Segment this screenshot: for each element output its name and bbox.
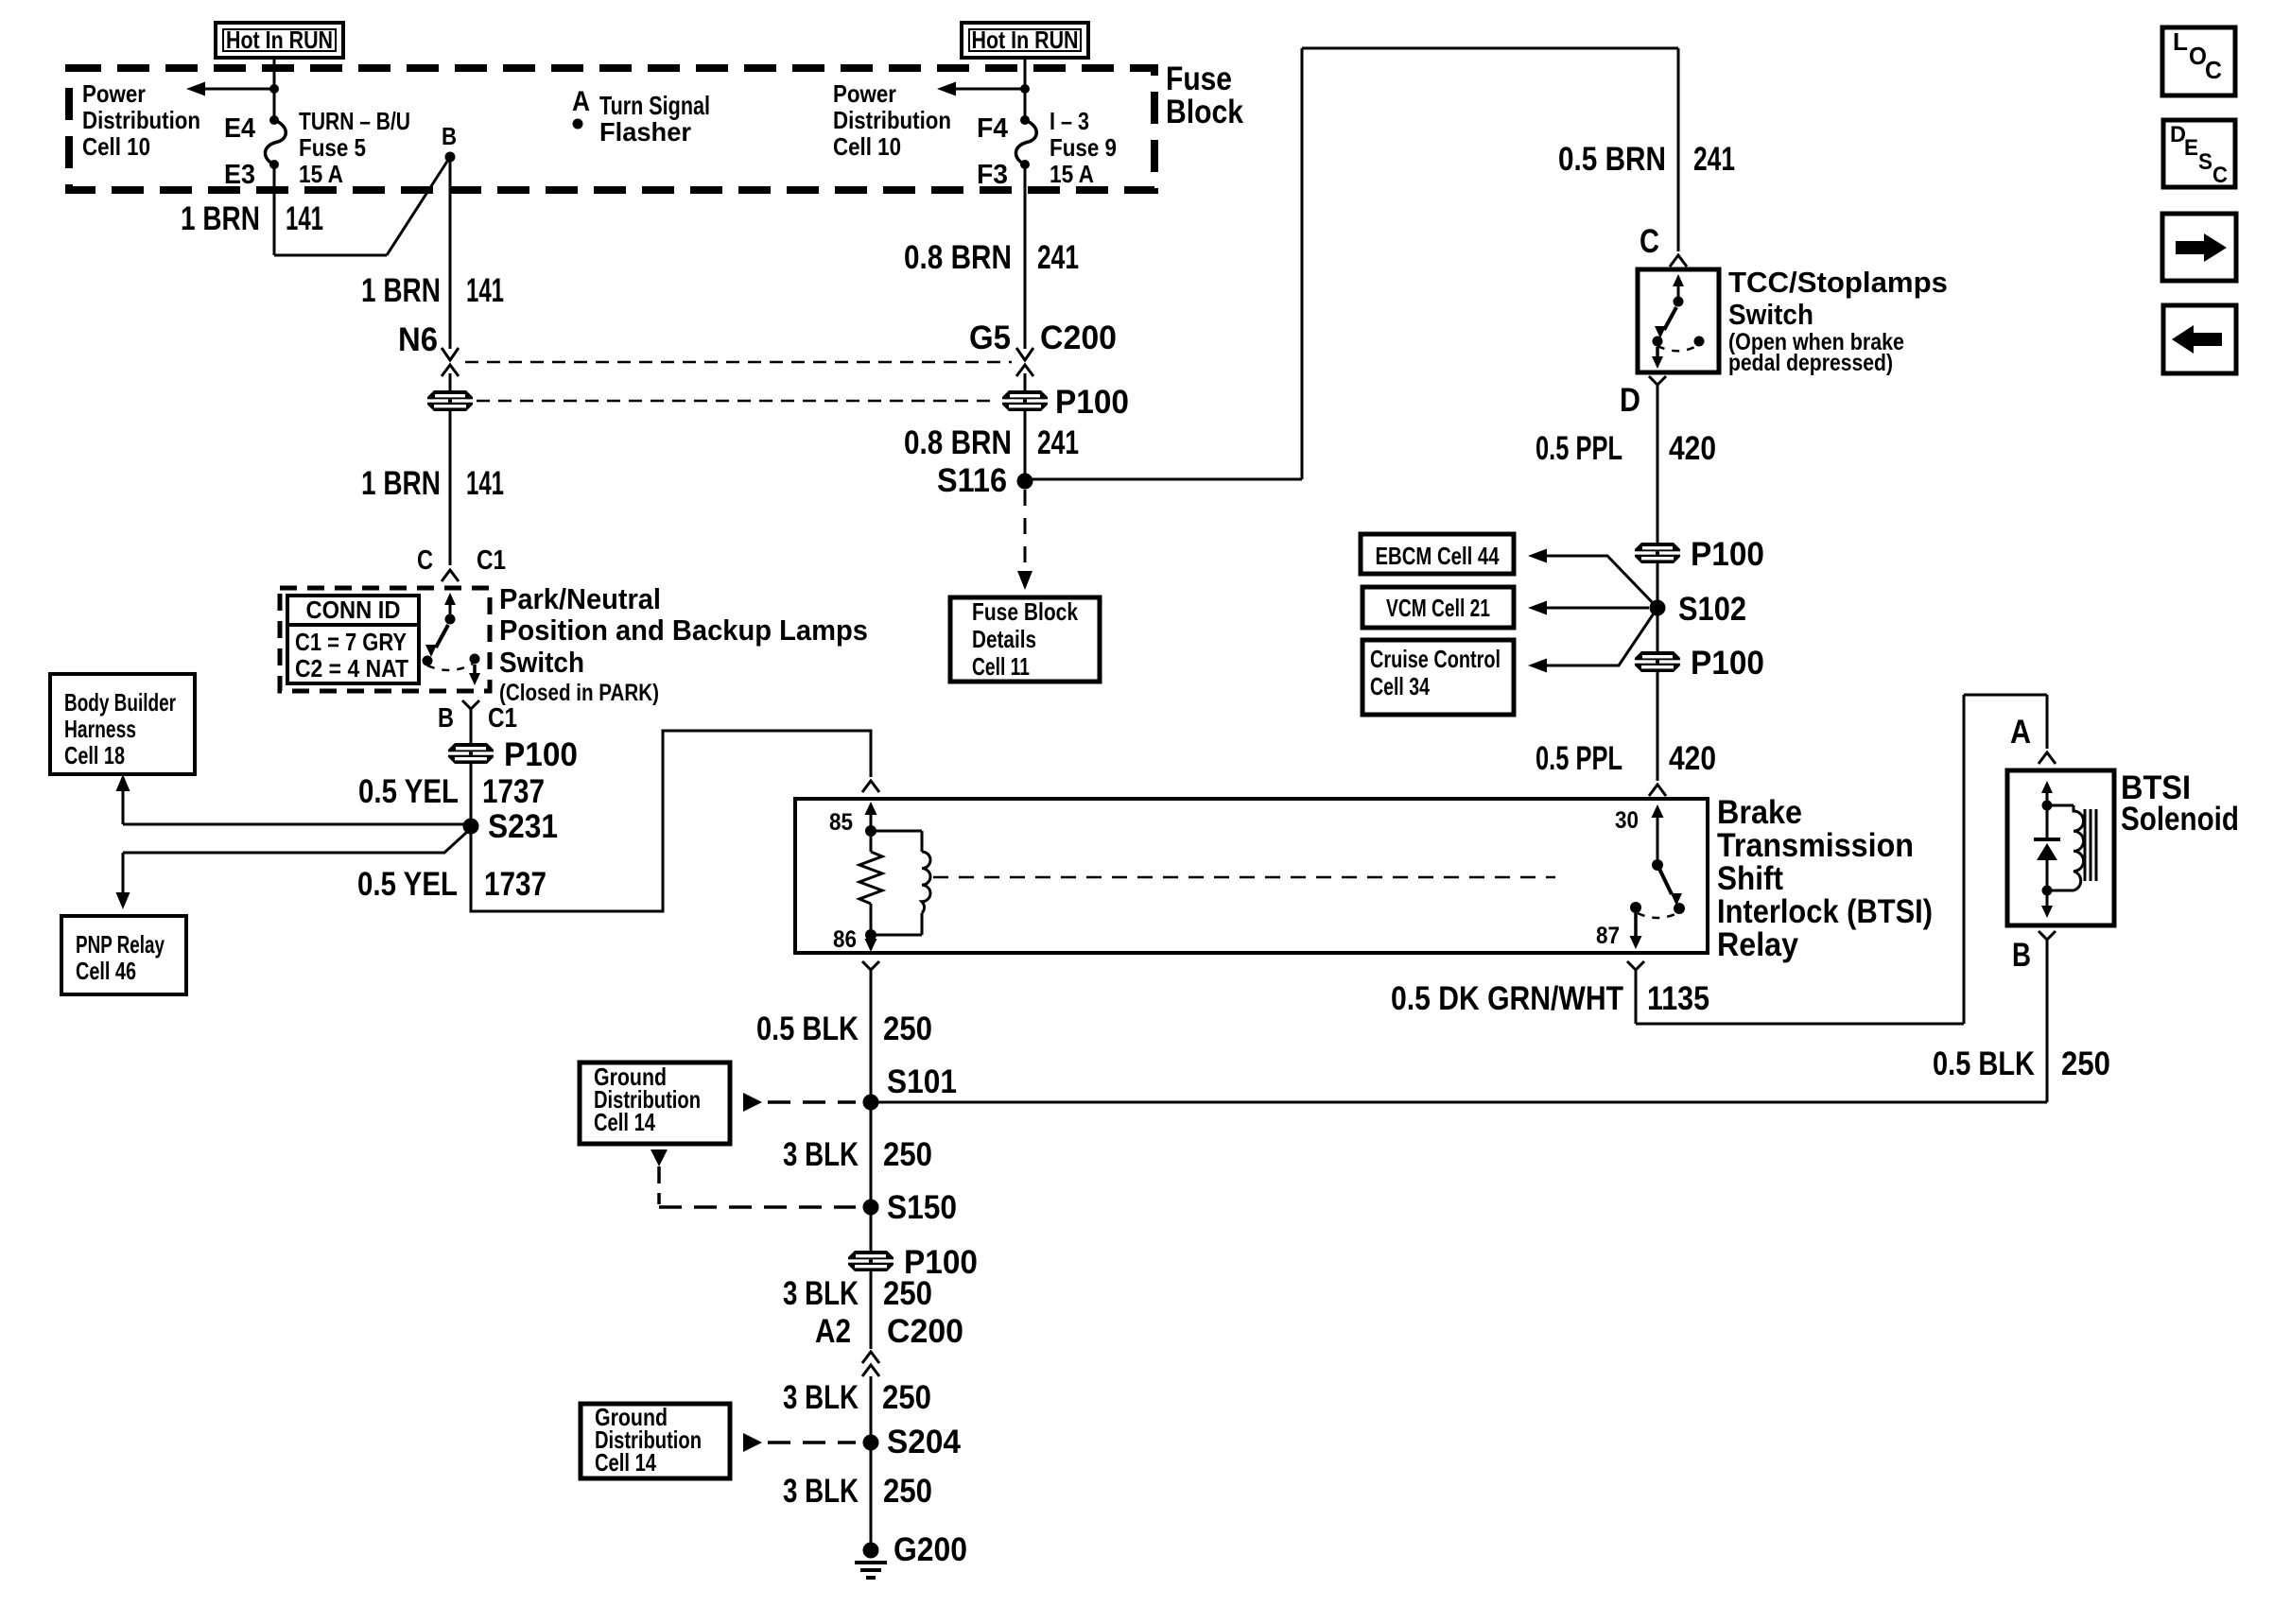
svg-text:Fuse: Fuse: [1166, 60, 1232, 97]
dashed ground reference to S150: [659, 1205, 856, 1209]
connector B / C1 out of P/N switch: [462, 700, 479, 709]
svg-text:0.5 BLK: 0.5 BLK: [1933, 1045, 2035, 1082]
connector below relay pin 87: [1627, 961, 1644, 970]
svg-text:250: 250: [883, 1275, 932, 1312]
svg-text:Brake: Brake: [1717, 794, 1802, 831]
svg-text:C: C: [2212, 163, 2228, 188]
svg-text:15 A: 15 A: [299, 160, 343, 188]
dashed ground reference to S101: [743, 1093, 762, 1112]
svg-text:0.5 YEL: 0.5 YEL: [358, 773, 459, 810]
splice S204: [863, 1435, 879, 1451]
relay switch arm to pin 87: [1657, 865, 1672, 894]
Hot In RUN box (left): [216, 23, 343, 58]
svg-text:Body Builder: Body Builder: [64, 688, 176, 717]
svg-text:pedal depressed): pedal depressed): [1728, 350, 1893, 376]
wire S102 to grommet: [1657, 608, 1659, 651]
wire grommet to S116: [1024, 411, 1027, 475]
svg-text:A: A: [572, 86, 590, 117]
svg-text:EBCM Cell 44: EBCM Cell 44: [1376, 542, 1500, 570]
wire to grommet P100: [470, 719, 473, 743]
svg-text:PNP Relay: PNP Relay: [76, 930, 165, 959]
svg-text:Position and Backup Lamps: Position and Backup Lamps: [499, 613, 868, 647]
wire grommet down to relay pin 30: [1657, 672, 1659, 781]
svg-text:P100: P100: [1691, 645, 1764, 682]
svg-text:0.5 YEL: 0.5 YEL: [357, 866, 458, 903]
grommet P100 (below P/N switch): [448, 743, 494, 764]
right arrow nav box: [2162, 214, 2236, 281]
svg-text:TURN – B/U: TURN – B/U: [299, 107, 410, 135]
svg-text:250: 250: [882, 1379, 931, 1416]
svg-text:Distribution: Distribution: [82, 106, 200, 134]
TCC/Stoplamps Switch box: [1638, 269, 1719, 372]
svg-text:Fuse Block: Fuse Block: [972, 597, 1078, 626]
svg-text:S204: S204: [887, 1424, 962, 1460]
relay internal dashed link: [933, 876, 1555, 879]
svg-text:G200: G200: [894, 1531, 967, 1568]
svg-text:N6: N6: [398, 321, 438, 358]
svg-text:S150: S150: [887, 1189, 957, 1226]
left arrow nav box: [2163, 305, 2236, 373]
svg-text:Switch: Switch: [499, 646, 584, 679]
svg-text:250: 250: [883, 1011, 932, 1047]
connector B of BTSI solenoid: [2039, 931, 2056, 940]
svg-text:Details: Details: [972, 625, 1036, 653]
svg-text:Cruise Control: Cruise Control: [1370, 645, 1501, 673]
svg-text:86: 86: [833, 926, 857, 953]
svg-text:15 A: 15 A: [1050, 160, 1094, 188]
wire solenoid B to ground bus: [2046, 950, 2049, 1102]
svg-text:(Closed in PARK): (Closed in PARK): [499, 680, 659, 706]
svg-text:C2 = 4 NAT: C2 = 4 NAT: [295, 654, 408, 682]
wire grommet to connector A2: [870, 1271, 873, 1349]
wire N6 to grommet: [449, 373, 452, 390]
svg-text:Power: Power: [82, 79, 146, 108]
svg-text:85: 85: [829, 809, 853, 836]
arrow to EBCM Cell 44: [1547, 556, 1657, 608]
svg-text:1 BRN: 1 BRN: [361, 465, 441, 502]
splice S101: [863, 1095, 879, 1111]
Ground Distribution Cell 14 box (upper): [580, 1063, 730, 1144]
solenoid clamp diode: [2046, 805, 2049, 838]
arrow to Power Distribution Cell 10 (left): [202, 88, 274, 91]
svg-text:Switch: Switch: [1728, 298, 1813, 331]
Cruise Control Cell 34 box: [1362, 640, 1514, 715]
relay pin 87 contact: [1630, 902, 1641, 913]
VCM Cell 21 box: [1362, 587, 1514, 628]
wire 0.5 DK GRN/WHT to solenoid: [1635, 980, 1638, 1024]
wire S231 down and over to relay pin 85: [471, 731, 871, 911]
dashed ground reference to S204: [743, 1433, 762, 1452]
svg-text:Cell 14: Cell 14: [594, 1108, 655, 1136]
wire E3 down and jog to B: [273, 164, 276, 255]
svg-text:S116: S116: [937, 462, 1007, 499]
svg-text:Distribution: Distribution: [833, 106, 951, 134]
svg-text:F4: F4: [977, 113, 1008, 144]
svg-text:E3: E3: [224, 160, 255, 190]
svg-text:B: B: [438, 703, 454, 734]
svg-text:TCC/Stoplamps: TCC/Stoplamps: [1728, 266, 1948, 299]
svg-text:C1: C1: [488, 703, 517, 734]
ground bus wire from S101 to solenoid: [871, 1101, 2047, 1104]
P/N switch arm: [449, 599, 452, 615]
svg-text:C: C: [2205, 56, 2222, 84]
wire down to TCC switch pin C: [1677, 48, 1680, 251]
wire S101 to S150: [870, 1102, 873, 1207]
svg-text:Relay: Relay: [1717, 926, 1798, 963]
svg-text:Park/Neutral: Park/Neutral: [499, 582, 661, 615]
svg-text:420: 420: [1669, 430, 1716, 467]
solenoid coil: [2047, 804, 2073, 807]
solenoid internal feed arrow: [2046, 786, 2049, 803]
ground reference branch arrow (down): [651, 1149, 668, 1166]
svg-text:F3: F3: [977, 160, 1008, 190]
grommet P100 (right upper): [1635, 543, 1680, 563]
fuse block dashed enclosure: [69, 68, 1154, 190]
svg-text:I – 3: I – 3: [1050, 107, 1089, 135]
svg-text:L: L: [2173, 27, 2188, 56]
solenoid core lines: [2084, 809, 2087, 881]
svg-text:Interlock (BTSI): Interlock (BTSI): [1717, 893, 1933, 930]
wire S231 to PNP Relay arrow: [123, 832, 467, 853]
wire relay 86 down to S101: [870, 980, 873, 1102]
svg-text:0.8 BRN: 0.8 BRN: [904, 239, 1012, 276]
svg-text:A2: A2: [815, 1313, 851, 1350]
solenoid output arrow: [2046, 895, 2049, 909]
svg-text:S102: S102: [1678, 591, 1746, 628]
wire B down to connector N6: [449, 157, 452, 349]
splice S150: [863, 1200, 879, 1216]
wire S116 to right riser: [1025, 478, 1302, 481]
top horizontal wire to TCC switch: [1302, 47, 1678, 50]
svg-text:1 BRN: 1 BRN: [181, 200, 260, 237]
Ground Distribution Cell 14 box (lower): [581, 1404, 730, 1478]
svg-text:Flasher: Flasher: [599, 117, 691, 147]
connector into relay pin 30: [1649, 785, 1666, 796]
svg-text:0.5 PPL: 0.5 PPL: [1536, 740, 1622, 777]
svg-text:Power: Power: [833, 79, 896, 108]
fuse I-3 Fuse 9 15 A: [1024, 89, 1027, 120]
BTSI relay box: [795, 799, 1708, 953]
wire grommet to connector C C1: [449, 411, 452, 565]
Park/Neutral Position and Backup Lamps Switch dashed box: [280, 588, 490, 691]
svg-text:C200: C200: [1040, 320, 1117, 356]
right riser wire up to top: [1301, 48, 1304, 479]
TCC switch arm: [1677, 279, 1680, 298]
PNP Relay Cell 46 box: [61, 916, 186, 994]
CONN ID table: [287, 596, 419, 683]
svg-text:30: 30: [1615, 807, 1639, 834]
svg-text:P100: P100: [1691, 536, 1764, 573]
relay coil junction top: [865, 825, 876, 837]
svg-text:0.5 PPL: 0.5 PPL: [1536, 430, 1622, 467]
arrow to Power Distribution Cell 10 (right): [953, 88, 1025, 91]
svg-text:D: D: [1620, 382, 1640, 419]
wire from Hot In RUN to fuse 5: [273, 58, 276, 89]
svg-text:87: 87: [1596, 923, 1620, 949]
svg-text:1 BRN: 1 BRN: [361, 272, 441, 309]
svg-text:250: 250: [883, 1473, 932, 1510]
P100 grommet dashed plane: [477, 400, 998, 403]
node at fuse 5 feed: [269, 84, 279, 94]
Hot In RUN box (right): [962, 23, 1088, 58]
svg-text:241: 241: [1693, 141, 1735, 178]
wire connector to S204: [870, 1376, 873, 1443]
svg-text:E4: E4: [224, 113, 255, 144]
svg-text:C1 = 7 GRY: C1 = 7 GRY: [295, 628, 407, 656]
ground G200: [863, 1543, 879, 1559]
svg-text:C: C: [1640, 223, 1659, 260]
svg-text:141: 141: [466, 272, 504, 309]
svg-text:Cell 18: Cell 18: [64, 741, 125, 769]
svg-text:C: C: [417, 545, 433, 576]
svg-text:3 BLK: 3 BLK: [783, 1136, 859, 1173]
svg-text:Turn Signal: Turn Signal: [599, 91, 710, 120]
svg-text:Cell 10: Cell 10: [833, 132, 901, 161]
svg-text:Shift: Shift: [1717, 860, 1783, 897]
svg-text:Solenoid: Solenoid: [2121, 801, 2239, 838]
wire grommet to S102: [1657, 563, 1659, 608]
svg-text:Cell 14: Cell 14: [595, 1448, 656, 1477]
svg-text:Harness: Harness: [64, 715, 136, 743]
svg-text:250: 250: [2061, 1045, 2110, 1082]
svg-text:S: S: [2198, 149, 2212, 175]
DESC nav box: [2163, 120, 2235, 187]
fuse TURN-B/U Fuse 5 15 A: [273, 89, 276, 120]
svg-text:Fuse 9: Fuse 9: [1050, 133, 1117, 162]
svg-text:Block: Block: [1166, 94, 1243, 130]
node at fuse 9 feed: [1020, 84, 1030, 94]
connector below relay pin 86: [862, 961, 879, 970]
svg-text:P100: P100: [504, 736, 578, 773]
svg-text:Transmission: Transmission: [1717, 827, 1914, 864]
svg-text:VCM Cell 21: VCM Cell 21: [1386, 594, 1490, 622]
svg-text:Hot In RUN: Hot In RUN: [226, 26, 333, 54]
svg-text:0.5 BRN: 0.5 BRN: [1558, 141, 1666, 178]
svg-text:0.5 BLK: 0.5 BLK: [756, 1011, 859, 1047]
svg-text:C1: C1: [477, 545, 506, 576]
relay coil branch: [871, 830, 922, 833]
Body Builder Harness Cell 18 box: [50, 674, 195, 774]
svg-text:E: E: [2184, 135, 2198, 161]
wire grommet to S231: [470, 764, 473, 826]
svg-text:A: A: [2010, 714, 2031, 751]
Fuse Block Details Cell 11 box: [950, 597, 1100, 682]
wire from Hot In RUN to fuse 9: [1024, 58, 1027, 89]
svg-text:Cell 46: Cell 46: [76, 957, 136, 985]
splice S102: [1650, 600, 1666, 616]
BTSI solenoid box: [2007, 770, 2114, 925]
svg-text:B: B: [442, 122, 457, 150]
svg-text:3 BLK: 3 BLK: [783, 1473, 859, 1510]
svg-text:250: 250: [883, 1136, 932, 1173]
dashed arrow S116 to Fuse Block Details: [1024, 490, 1027, 575]
grommet P100 (bottom): [848, 1251, 894, 1271]
svg-text:1135: 1135: [1647, 980, 1709, 1017]
svg-text:420: 420: [1669, 740, 1716, 777]
svg-text:1737: 1737: [484, 866, 547, 903]
wire S150 to grommet: [870, 1207, 873, 1251]
svg-text:1737: 1737: [482, 773, 545, 810]
grommet P100 (middle): [1002, 390, 1048, 411]
wire fuse 9 down to connector G5: [1024, 164, 1027, 349]
svg-text:S101: S101: [887, 1063, 957, 1100]
svg-text:G5: G5: [969, 320, 1011, 356]
connector into relay pin 85: [862, 781, 879, 792]
splice S231: [463, 819, 479, 835]
svg-text:B: B: [2012, 937, 2031, 974]
wire S204 to G200: [870, 1443, 873, 1543]
svg-text:141: 141: [466, 465, 504, 502]
relay switch common dot: [1652, 859, 1663, 871]
svg-text:241: 241: [1037, 424, 1079, 461]
relay coil junction bottom: [865, 929, 876, 941]
relay resistor: [870, 836, 873, 852]
svg-text:Cell 11: Cell 11: [972, 652, 1030, 681]
svg-text:Hot In RUN: Hot In RUN: [972, 26, 1079, 54]
svg-text:Cell 10: Cell 10: [82, 132, 150, 161]
wire S231 to Body Builder Harness arrow: [123, 823, 471, 826]
svg-text:Fuse 5: Fuse 5: [299, 133, 366, 162]
EBCM Cell 44 box: [1361, 534, 1514, 574]
splice S116: [1017, 474, 1033, 490]
LOC nav box: [2162, 27, 2235, 95]
grommet P100 (left): [427, 390, 473, 411]
svg-text:CONN ID: CONN ID: [306, 596, 401, 624]
svg-text:C200: C200: [887, 1313, 963, 1350]
svg-text:241: 241: [1037, 239, 1079, 276]
svg-text:0.5 DK GRN/WHT: 0.5 DK GRN/WHT: [1391, 980, 1623, 1017]
wire D down to grommet: [1657, 395, 1659, 543]
svg-text:Cell 34: Cell 34: [1370, 672, 1430, 700]
svg-text:S231: S231: [488, 808, 558, 845]
C200 connector dashed plane: [465, 361, 1012, 364]
svg-text:3 BLK: 3 BLK: [783, 1379, 859, 1416]
svg-text:3 BLK: 3 BLK: [783, 1275, 859, 1312]
svg-text:0.8 BRN: 0.8 BRN: [904, 424, 1012, 461]
wire G5 to grommet: [1024, 373, 1027, 390]
arrow to VCM Cell 21: [1547, 607, 1649, 610]
arrow to Cruise Control Cell 34: [1547, 608, 1657, 665]
grommet P100 (right lower): [1635, 651, 1680, 672]
svg-text:141: 141: [286, 200, 323, 237]
svg-text:P100: P100: [1055, 384, 1129, 421]
connector D of TCC switch: [1649, 376, 1666, 385]
